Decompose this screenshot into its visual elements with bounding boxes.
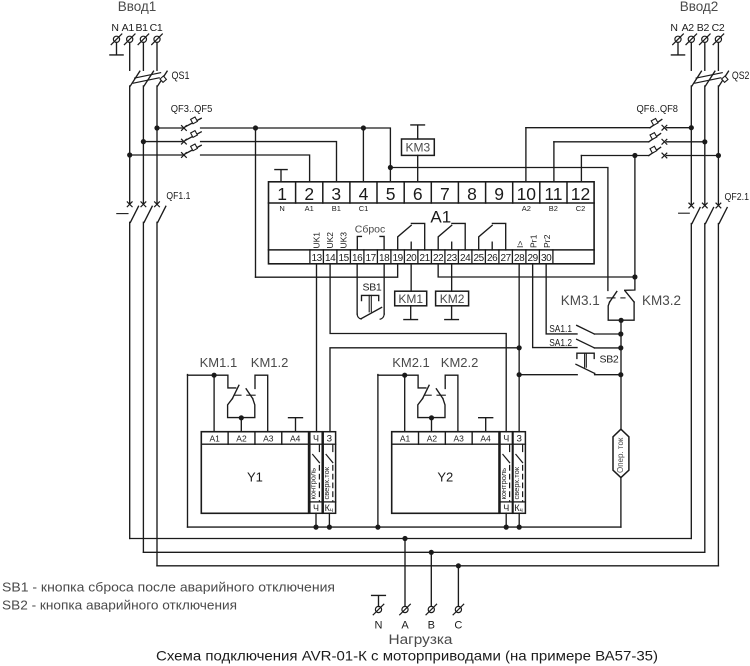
Y2 A4 T-bar bbox=[479, 418, 493, 432]
wire Y2 Ч to control bus bbox=[505, 513, 507, 527]
wire Y2-A1 drop bbox=[404, 375, 406, 432]
wire terminal 14 to Y2 Ч column bbox=[330, 264, 506, 432]
svg-text:N: N bbox=[375, 620, 383, 632]
KM1 contacts output funnel bbox=[228, 399, 255, 418]
svg-text:Y1: Y1 bbox=[247, 470, 263, 485]
svg-text:C1: C1 bbox=[150, 22, 163, 34]
wire Y1 З column to terminal 28 node bbox=[330, 348, 519, 432]
terminal load N bbox=[375, 606, 381, 612]
A1 bottom row separators bbox=[310, 250, 553, 264]
A1 terminal numbers 13-30 bbox=[312, 253, 553, 264]
wire SB2 feed from terminal 28 node bbox=[519, 374, 577, 376]
wire phase C2 down to bus C bbox=[717, 224, 719, 566]
svg-text:QF6..QF8: QF6..QF8 bbox=[637, 103, 679, 115]
terminal load C bbox=[455, 606, 461, 612]
node junction B2-QF7 bbox=[702, 139, 707, 144]
svg-text:Схема подключения AVR-01-К с м: Схема подключения AVR-01-К с моторпривод… bbox=[156, 649, 658, 664]
breaker QF7 pole bbox=[554, 133, 705, 145]
wire KM2 contacts feed bbox=[378, 375, 426, 388]
svg-text:13: 13 bbox=[312, 253, 323, 264]
svg-text:З: З bbox=[516, 433, 521, 443]
contact KM1.1 bbox=[232, 385, 241, 398]
svg-text:A1: A1 bbox=[122, 22, 135, 34]
svg-text:30: 30 bbox=[541, 253, 552, 264]
contactor coil KM2 bbox=[436, 291, 469, 306]
svg-text:Ввод2: Ввод2 bbox=[680, 0, 719, 14]
svg-text:29: 29 bbox=[528, 253, 539, 264]
svg-text:19: 19 bbox=[393, 253, 404, 264]
svg-text:12: 12 bbox=[571, 184, 590, 204]
breaker QF1.1 pole A bbox=[127, 202, 138, 222]
svg-text:Рг2: Рг2 bbox=[542, 234, 552, 248]
node junction A1-QF5 bbox=[127, 152, 132, 157]
A1 relay contact 19-20-21 bbox=[398, 223, 425, 250]
svg-text:N: N bbox=[670, 22, 677, 34]
contact KM1.2 bbox=[246, 389, 255, 399]
wire terminal 20 to KM1 coil bbox=[410, 264, 412, 291]
breaker QF1.1 pole B bbox=[141, 202, 152, 222]
svg-text:Ч: Ч bbox=[313, 503, 319, 513]
wire phase B down-left to bus B bbox=[142, 222, 144, 552]
svg-text:N: N bbox=[279, 204, 284, 213]
terminal B2 (input 2) bbox=[702, 36, 708, 42]
wire C2 input to QS2 bbox=[717, 43, 719, 71]
wire terminal 4 riser bbox=[362, 128, 364, 182]
wire terminal 11 riser bbox=[553, 142, 555, 182]
svg-text:Нагрузка: Нагрузка bbox=[389, 632, 454, 647]
wire KM3.2 upper bbox=[625, 277, 635, 290]
svg-text:3: 3 bbox=[331, 184, 341, 204]
contact KM2.1 bbox=[423, 385, 432, 398]
svg-text:16: 16 bbox=[352, 253, 363, 264]
svg-text:А2: А2 bbox=[427, 433, 438, 443]
node junction A2-QF6 bbox=[689, 125, 694, 130]
svg-text:контроль: контроль bbox=[309, 468, 318, 500]
load labels N A B C bbox=[375, 620, 463, 632]
wire terminal 19 to net277 bbox=[256, 264, 398, 277]
wire terminal 28 riser to Y2 З column bbox=[518, 264, 520, 432]
svg-text:24: 24 bbox=[460, 253, 471, 264]
wire A1 input to QS1 bbox=[129, 43, 131, 71]
device A1 outer box bbox=[269, 182, 595, 264]
node junction KM3 output bbox=[619, 318, 624, 323]
svg-text:1: 1 bbox=[277, 184, 287, 204]
svg-text:A1: A1 bbox=[305, 204, 314, 213]
svg-text:SB2 - кнопка аварийного отключ: SB2 - кнопка аварийного отключения bbox=[2, 598, 237, 613]
svg-text:QF2.1: QF2.1 bbox=[725, 191, 750, 203]
node junction C1-QF3 bbox=[154, 125, 159, 130]
svg-text:Кч: Кч bbox=[514, 503, 522, 514]
svg-text:10: 10 bbox=[517, 184, 537, 204]
node junction QF8 to KM3.2 branch bbox=[632, 153, 637, 158]
A1 pin labels N A1 B1 C1 A2 B2 C2 bbox=[279, 204, 585, 213]
wire phase A down-left to bus A bbox=[129, 222, 131, 538]
svg-text:QS1: QS1 bbox=[172, 70, 190, 82]
svg-text:B: B bbox=[428, 620, 435, 632]
wire terminal 23 to KM2 coil bbox=[451, 264, 453, 291]
svg-text:А1: А1 bbox=[209, 433, 220, 443]
svg-text:SA1.2: SA1.2 bbox=[549, 337, 572, 349]
svg-text:15: 15 bbox=[339, 253, 350, 264]
svg-text:14: 14 bbox=[325, 253, 336, 264]
breaker QF8 pole bbox=[581, 146, 718, 158]
wire load B drop bbox=[430, 552, 432, 606]
svg-text:QF1.1: QF1.1 bbox=[166, 190, 190, 202]
svg-text:KM3.2: KM3.2 bbox=[642, 293, 681, 308]
wire terminal 16 to SB1 bbox=[356, 264, 358, 314]
contactor coil KM1 bbox=[395, 291, 427, 306]
ground N input1 bbox=[110, 43, 123, 55]
wire C1 QS1 to QF1.1 bbox=[156, 86, 158, 204]
svg-text:контроль: контроль bbox=[499, 468, 508, 500]
node junction terminal5/wire167 bbox=[388, 165, 393, 170]
contact SA1.1 bbox=[577, 325, 621, 334]
node junction QF3 wire to t19 riser bbox=[253, 125, 258, 130]
svg-text:KM1.1: KM1.1 bbox=[200, 355, 238, 370]
svg-text:B2: B2 bbox=[549, 204, 558, 213]
svg-text:Ч: Ч bbox=[503, 433, 509, 443]
svg-text:сверх.ток: сверх.ток bbox=[322, 466, 331, 499]
wire KM2.2 feed from Y2-A3 bbox=[445, 375, 458, 432]
wire hexagon to control bus bbox=[620, 478, 622, 527]
wire terminal 12 riser bbox=[580, 156, 582, 182]
fuse Опер.ток bbox=[613, 429, 629, 477]
terminal load A bbox=[402, 606, 408, 612]
wire B2 input to QS2 bbox=[704, 43, 706, 71]
svg-text:SA1.1: SA1.1 bbox=[549, 323, 572, 335]
breaker QF2.1 pole A bbox=[689, 203, 700, 223]
wire KM3 output to hexagon bbox=[620, 320, 622, 429]
svg-text:KM3: KM3 bbox=[406, 140, 431, 154]
svg-text:SB2: SB2 bbox=[600, 353, 619, 365]
svg-text:QS2: QS2 bbox=[732, 70, 750, 82]
wire A2 QS2 to QF2.1 bbox=[690, 86, 692, 206]
svg-text:сверх.ток: сверх.ток bbox=[512, 466, 521, 499]
terminal B1 (input 1) bbox=[140, 36, 146, 42]
wire terminal 29 to SA1.2 bbox=[533, 264, 577, 348]
pushbutton SB1 bbox=[357, 281, 384, 319]
wire Y1 Ч to control bus bbox=[315, 513, 317, 527]
QF1.1 linkage dash bbox=[117, 213, 128, 215]
node junction KM2 contacts out bbox=[429, 415, 434, 420]
svg-text:A: A bbox=[401, 620, 409, 632]
svg-text:21: 21 bbox=[420, 253, 431, 264]
Сброс bracket pin16 bbox=[357, 236, 361, 250]
svg-text:SB1: SB1 bbox=[363, 281, 382, 293]
svg-text:9: 9 bbox=[494, 184, 504, 204]
disconnector QS2 bbox=[692, 71, 729, 86]
wire phase B2 down to bus B bbox=[704, 224, 706, 553]
breaker QF1.1 pole C bbox=[155, 202, 166, 222]
node junction KM2 riser bus bbox=[375, 525, 380, 530]
terminal N (input 1) bbox=[113, 36, 119, 42]
svg-text:17: 17 bbox=[366, 253, 377, 264]
svg-text:18: 18 bbox=[379, 253, 390, 264]
wire KM2 feed riser to control bus bbox=[377, 375, 379, 527]
wire A1 QS1 to QF1.1 bbox=[129, 86, 131, 204]
node junction load A bbox=[402, 536, 407, 541]
wire KM1 contacts feed bbox=[188, 375, 236, 388]
node junction SA1.1 out bbox=[618, 331, 623, 336]
terminal labels N A2 B2 C2 bbox=[670, 22, 725, 34]
svg-text:28: 28 bbox=[514, 253, 525, 264]
A1 T-bar above terminal 1 bbox=[275, 170, 287, 182]
node junction Y2-Кч bus bbox=[517, 525, 522, 530]
svg-text:11: 11 bbox=[544, 184, 562, 204]
svg-text:B2: B2 bbox=[697, 22, 710, 34]
wire KM3.2 feed riser bbox=[634, 156, 636, 277]
svg-text:KM1.2: KM1.2 bbox=[251, 355, 289, 370]
svg-text:A2: A2 bbox=[682, 22, 695, 34]
svg-text:З: З bbox=[327, 433, 332, 443]
svg-text:QF3..QF5: QF3..QF5 bbox=[171, 103, 213, 115]
load N T-bar bbox=[372, 595, 386, 606]
node junction KM1 contacts out bbox=[239, 415, 244, 420]
svg-text:6: 6 bbox=[413, 184, 423, 204]
svg-text:8: 8 bbox=[467, 184, 477, 204]
A1 bottom terminal row line bbox=[269, 249, 595, 251]
contactor coil KM3 bbox=[402, 139, 435, 155]
wire KM2 out to Y2-A2 bbox=[431, 418, 433, 432]
svg-text:I>: I> bbox=[515, 241, 525, 248]
node junction Y1-Ч bus bbox=[313, 525, 318, 530]
svg-text:Y2: Y2 bbox=[437, 470, 453, 485]
svg-text:Кч: Кч bbox=[325, 503, 333, 514]
node junction SA1.2 out bbox=[618, 345, 623, 350]
svg-text:B1: B1 bbox=[332, 204, 341, 213]
breaker QF2.1 pole B bbox=[702, 203, 713, 223]
contact KM3.2 bbox=[621, 291, 634, 302]
breaker QF5 pole (A1 phase) bbox=[130, 144, 202, 157]
wire Y2 Кч to control bus bbox=[518, 513, 520, 527]
A1 relay contact 25-26-27 bbox=[479, 223, 506, 250]
svg-text:KM1: KM1 bbox=[398, 292, 423, 306]
node junction load B bbox=[429, 550, 434, 555]
terminal C2 (input 2) bbox=[715, 36, 721, 42]
wire QF5 to terminal 2 bbox=[201, 155, 310, 182]
disconnector QS1 bbox=[130, 71, 167, 86]
node junction Y1-Кч bus bbox=[327, 525, 332, 530]
wire terminal 22 to net277R bbox=[438, 264, 635, 277]
svg-text:KM2.2: KM2.2 bbox=[441, 355, 479, 370]
wire phase A2 down to bus A bbox=[690, 224, 692, 539]
svg-text:Ч: Ч bbox=[313, 433, 319, 443]
Y1 A4 T-bar bbox=[289, 418, 303, 432]
wire riser x255 down to terminal 19 branch bbox=[255, 128, 257, 277]
wire terminal 10 riser bbox=[525, 128, 527, 182]
svg-text:UK3: UK3 bbox=[339, 232, 349, 249]
wire KM3 to terminal 6 bbox=[417, 155, 419, 181]
A1 terminal numbers 1-12 bbox=[277, 184, 590, 204]
A1 relay contact 22-23-24 bbox=[438, 223, 465, 250]
svg-text:20: 20 bbox=[406, 253, 417, 264]
node junction B1-QF4 bbox=[141, 139, 146, 144]
terminal A1 (input 1) bbox=[127, 36, 133, 42]
wire B2 QS2 to QF2.1 bbox=[704, 86, 706, 206]
svg-text:А1: А1 bbox=[400, 433, 411, 443]
svg-text:B1: B1 bbox=[135, 22, 148, 34]
svg-text:4: 4 bbox=[359, 184, 369, 204]
KM1 T-bar bbox=[404, 306, 418, 320]
wire terminal 30 to SA1.1 bbox=[546, 264, 577, 334]
node junction load C bbox=[456, 563, 461, 568]
wire load A drop bbox=[404, 539, 406, 607]
wire B1 QS1 to QF1.1 bbox=[142, 86, 144, 204]
wire control bus bbox=[188, 526, 621, 528]
A1 top row separators bbox=[296, 182, 567, 203]
terminal N (input 2) bbox=[675, 36, 681, 42]
node junction t4 tap bbox=[361, 125, 366, 130]
contact KM2.2 bbox=[436, 389, 445, 399]
wire C1 input to QS1 bbox=[156, 43, 158, 71]
breaker QF2.1 pole C bbox=[716, 203, 727, 223]
contact SA1.2 bbox=[577, 339, 621, 348]
Сброс bracket pin18 bbox=[380, 236, 384, 250]
svg-text:А3: А3 bbox=[453, 433, 464, 443]
svg-text:25: 25 bbox=[474, 253, 485, 264]
motor drive Y2 block bbox=[392, 432, 526, 515]
svg-text:KM3.1: KM3.1 bbox=[561, 293, 600, 308]
node junction C2-QF8 bbox=[716, 153, 721, 158]
node junction net277R-KM3.2 bbox=[632, 274, 637, 279]
breaker QF3 pole (C1 phase) bbox=[157, 117, 201, 130]
terminal C1 (input 1) bbox=[154, 36, 160, 42]
breaker QF4 pole (B1 phase) bbox=[143, 131, 201, 144]
QF2.1 linkage dash bbox=[679, 212, 690, 214]
svg-text:27: 27 bbox=[501, 253, 512, 264]
motor drive Y1 block bbox=[201, 432, 335, 515]
pushbutton SB2 bbox=[576, 353, 621, 375]
wire KM1.2 feed from Y1-A3 bbox=[255, 375, 268, 432]
KM3 top T-bar bbox=[411, 125, 425, 139]
svg-text:Рг1: Рг1 bbox=[529, 234, 539, 248]
svg-text:Ч: Ч bbox=[503, 503, 509, 513]
svg-text:А3: А3 bbox=[263, 433, 274, 443]
svg-text:C2: C2 bbox=[712, 22, 725, 34]
wire QF4 to terminal 3 bbox=[201, 142, 337, 182]
KM2 T-bar bbox=[445, 306, 459, 320]
wire A2 input to QS2 bbox=[690, 43, 692, 71]
svg-text:A2: A2 bbox=[522, 204, 531, 213]
svg-text:26: 26 bbox=[487, 253, 498, 264]
node junction Y1-A1 tap bbox=[212, 373, 217, 378]
svg-text:C1: C1 bbox=[359, 204, 369, 213]
svg-text:22: 22 bbox=[433, 253, 444, 264]
A1 top terminal row line bbox=[269, 202, 595, 204]
wire QF3 to terminal 5 riser bbox=[201, 128, 391, 182]
wire KM1 feed riser to control bus bbox=[187, 375, 189, 527]
terminal labels N A1 B1 C1 bbox=[111, 22, 163, 34]
breaker QF6 pole bbox=[526, 119, 691, 131]
node junction SB2 out bbox=[618, 372, 623, 377]
ground N input2 bbox=[671, 43, 684, 55]
svg-text:Ввод1: Ввод1 bbox=[118, 0, 157, 14]
svg-text:KM2.1: KM2.1 bbox=[392, 355, 430, 370]
terminal A2 (input 2) bbox=[688, 36, 694, 42]
svg-text:Сброс: Сброс bbox=[355, 224, 386, 236]
wire bus phase B bbox=[143, 551, 704, 553]
svg-text:23: 23 bbox=[447, 253, 458, 264]
wire Y1 Кч to control bus bbox=[328, 513, 330, 527]
wire terminal 13 to Y1 Ч column bbox=[316, 264, 318, 432]
node junction Y2-Ч bus bbox=[504, 525, 509, 530]
svg-text:А4: А4 bbox=[290, 433, 301, 443]
svg-text:2: 2 bbox=[304, 184, 314, 204]
wire net167 to KM3.1 bbox=[390, 168, 608, 291]
svg-text:UK1: UK1 bbox=[312, 232, 322, 249]
node junction t28-SB2 bbox=[517, 372, 522, 377]
wire bus phase C bbox=[157, 565, 718, 567]
svg-text:C: C bbox=[454, 620, 462, 632]
wire phase C down-left to bus C bbox=[156, 222, 158, 566]
wire C2 QS2 to QF2.1 bbox=[717, 86, 719, 206]
KM3 contacts output funnel bbox=[608, 302, 634, 320]
svg-text:А2: А2 bbox=[236, 433, 247, 443]
wire KM1 out to Y1-A2 bbox=[240, 418, 242, 432]
wire load C drop bbox=[457, 566, 459, 607]
KM2 contacts output funnel bbox=[418, 399, 445, 418]
wire Y1-A1 drop bbox=[213, 375, 215, 432]
svg-text:N: N bbox=[111, 22, 118, 34]
svg-text:SB1 - кнопка сброса после авар: SB1 - кнопка сброса после аварийного отк… bbox=[2, 580, 335, 595]
contact KM3.1 bbox=[607, 292, 617, 303]
node junction net347-t28 bbox=[517, 345, 522, 350]
svg-text:5: 5 bbox=[386, 184, 396, 204]
node junction Y2-A1 tap bbox=[402, 373, 407, 378]
svg-text:Опер. ток: Опер. ток bbox=[616, 437, 625, 473]
svg-text:А1: А1 bbox=[430, 208, 451, 227]
terminal load B bbox=[428, 606, 434, 612]
wire terminal 18 to SB1 bbox=[383, 264, 385, 314]
svg-text:C2: C2 bbox=[576, 204, 586, 213]
svg-text:KM2: KM2 bbox=[440, 292, 465, 306]
svg-text:UK2: UK2 bbox=[325, 232, 335, 249]
svg-text:А4: А4 bbox=[480, 433, 491, 443]
wire bus phase A bbox=[130, 538, 692, 540]
wire B1 input to QS1 bbox=[142, 43, 144, 71]
svg-text:7: 7 bbox=[440, 184, 450, 204]
